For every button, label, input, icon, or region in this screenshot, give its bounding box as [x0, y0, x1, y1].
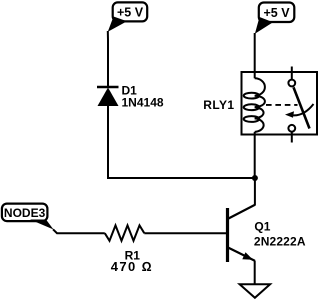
wire [144, 232, 226, 234]
wire [254, 178, 256, 205]
wire [107, 106, 109, 178]
node NODE3 flag [2, 204, 54, 230]
relay coil [244, 78, 265, 132]
relay switch arm [294, 87, 310, 128]
svg-text:+5 V: +5 V [263, 6, 290, 20]
wire [254, 261, 256, 285]
relay switch contact (top) [288, 67, 295, 87]
wire [53, 229, 105, 233]
power flag +5V (left) [108, 2, 147, 31]
wire [254, 33, 256, 78]
diode D1 [97, 87, 119, 106]
svg-text:470 Ω: 470 Ω [111, 259, 153, 274]
svg-text:Q1: Q1 [254, 220, 270, 234]
wire [107, 31, 109, 87]
ground [240, 284, 271, 298]
svg-text:1N4148: 1N4148 [122, 96, 164, 110]
svg-text:2N2222A: 2N2222A [254, 234, 306, 248]
relay RLY1 box [242, 72, 318, 135]
svg-text:NODE3: NODE3 [4, 206, 46, 220]
power flag +5V (right) [255, 3, 294, 34]
relay switch contact (bottom) [288, 125, 295, 143]
actuation dashed link [266, 104, 298, 106]
resistor R1 [105, 225, 145, 240]
svg-text:+5 V: +5 V [117, 6, 144, 20]
junction node [252, 175, 258, 181]
wire [107, 177, 255, 179]
wire [254, 132, 256, 178]
actuation arrow [285, 104, 314, 118]
svg-text:RLY1: RLY1 [203, 98, 234, 112]
transistor Q1 [228, 205, 256, 262]
